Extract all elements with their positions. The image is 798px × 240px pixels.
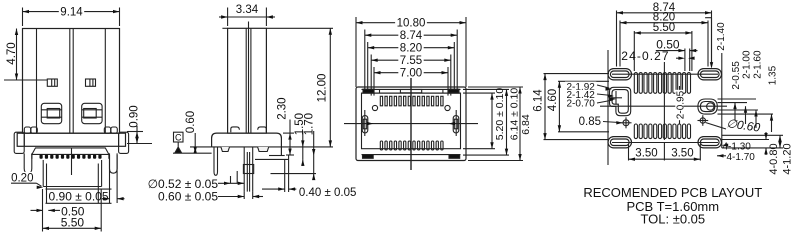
svg-text:7.00: 7.00 bbox=[400, 68, 422, 80]
svg-text:1.35: 1.35 bbox=[768, 65, 779, 85]
svg-text:TOL: ±0.05: TOL: ±0.05 bbox=[640, 212, 705, 227]
right hole marker bbox=[700, 118, 705, 123]
corner ovals bbox=[608, 69, 632, 80]
svg-text:C: C bbox=[175, 132, 182, 142]
label 2-1.00 bbox=[745, 106, 747, 124]
latch springs inside bbox=[231, 127, 240, 132]
center seam left bbox=[69, 29, 71, 134]
column body bbox=[228, 28, 267, 133]
svg-text:3.50: 3.50 bbox=[671, 148, 693, 160]
body outline bbox=[356, 87, 466, 161]
dim 0.90±0.05 bbox=[109, 155, 111, 203]
svg-text:2-0.95: 2-0.95 bbox=[676, 90, 687, 119]
svg-text:0.60 ± 0.05: 0.60 ± 0.05 bbox=[158, 189, 218, 203]
dim 7.00 bbox=[374, 72, 448, 74]
view4 vertical centerline bbox=[663, 62, 665, 140]
svg-text:0.90: 0.90 bbox=[129, 105, 141, 127]
flange tick right bbox=[118, 133, 120, 146]
center seam right bbox=[72, 29, 74, 134]
svg-text:2.30: 2.30 bbox=[277, 97, 289, 119]
inner housing rect bbox=[362, 93, 461, 149]
dims 4-1.30 / 4-1.70 bbox=[721, 144, 723, 146]
side tabs bbox=[24, 127, 30, 133]
pin row 2 bbox=[380, 141, 382, 150]
dim 2.30 bbox=[283, 132, 294, 134]
extension lines bbox=[355, 17, 357, 87]
dim 4.70 bbox=[4, 79, 47, 81]
side latch left bbox=[362, 116, 368, 133]
pin row 1 bbox=[380, 96, 382, 106]
dim 0.50 bbox=[31, 209, 44, 211]
base dome bbox=[212, 133, 282, 155]
top pad row bbox=[634, 73, 637, 94]
flange tick left bbox=[23, 133, 25, 146]
label 2-0.55 bbox=[734, 103, 736, 120]
svg-text:4-1.30: 4-1.30 bbox=[723, 141, 752, 152]
top oval centerline bbox=[612, 73, 718, 75]
strip tick L bbox=[379, 89, 381, 93]
right ear bbox=[119, 132, 129, 153]
dim 0.40±0.05 bbox=[284, 159, 286, 192]
dim 3.50 3.50 bbox=[628, 144, 630, 161]
bottom pad row bbox=[634, 124, 637, 139]
flange band bbox=[17, 133, 125, 146]
bottom oval centerline bbox=[612, 142, 718, 144]
svg-text:8.20: 8.20 bbox=[400, 43, 422, 55]
right SMT foot bbox=[269, 155, 285, 157]
dim 5.50 bbox=[634, 32, 692, 34]
pin collar bbox=[243, 165, 253, 174]
svg-text:3.34: 3.34 bbox=[236, 4, 259, 16]
extension lines top dims bbox=[616, 11, 618, 67]
svg-text:10.80: 10.80 bbox=[397, 18, 426, 30]
dim 8.74 bbox=[365, 34, 457, 36]
dim 1.50 bbox=[302, 131, 304, 159]
tongue inner ext L bbox=[46, 187, 48, 204]
svg-text:4-1.70: 4-1.70 bbox=[727, 152, 756, 163]
right keyhole pad bbox=[698, 99, 717, 114]
strip tick R bbox=[442, 89, 444, 93]
teeth row (filled) bbox=[40, 155, 43, 159]
svg-text:3.50: 3.50 bbox=[635, 148, 657, 160]
svg-text:6.14 ± 0.10: 6.14 ± 0.10 bbox=[509, 88, 521, 141]
bottom strip line bbox=[362, 154, 461, 156]
dim 5.20±0.10 bbox=[463, 92, 495, 94]
hole left bbox=[372, 105, 377, 110]
side latch right bbox=[453, 116, 459, 133]
svg-text:5.50: 5.50 bbox=[61, 215, 85, 229]
view centerline lower bbox=[71, 148, 73, 175]
svg-text:4-1.20: 4-1.20 bbox=[782, 143, 794, 174]
tongue inner ext R bbox=[97, 187, 99, 204]
dim 8.74 bbox=[617, 12, 712, 14]
svg-text:2-1.40: 2-1.40 bbox=[716, 22, 727, 51]
svg-text:6.84: 6.84 bbox=[520, 114, 532, 135]
dim 6.14±0.10 bbox=[463, 88, 509, 90]
label 2-0.95 bbox=[679, 86, 681, 92]
latch window bbox=[47, 79, 57, 86]
svg-text:24-0.27: 24-0.27 bbox=[621, 49, 669, 63]
top strip bbox=[362, 88, 461, 90]
datum C symbol bbox=[174, 132, 184, 142]
cap side L bbox=[31, 154, 33, 158]
dim 0.60 (left of dome) bbox=[194, 133, 196, 153]
left ear bbox=[14, 132, 24, 153]
center tab bbox=[400, 90, 421, 93]
vertical centerline bbox=[410, 78, 412, 170]
shell inner wall right bbox=[104, 29, 106, 134]
peg pin bbox=[214, 147, 218, 175]
seating plane line bbox=[173, 152, 212, 154]
left keyhole pad bbox=[610, 87, 631, 115]
horizontal centerline bbox=[600, 105, 727, 107]
svg-text:4.60: 4.60 bbox=[547, 89, 559, 111]
label 24-0.27 bbox=[676, 57, 682, 59]
svg-text:4-0.80: 4-0.80 bbox=[768, 143, 780, 174]
dim ∅0.52±0.05 bbox=[218, 182, 244, 184]
label 0.85 bbox=[603, 122, 619, 123]
label 2-1.60 bbox=[755, 110, 757, 128]
dim 5.50 bbox=[42, 189, 44, 232]
hole right bbox=[445, 105, 450, 110]
dim 4.60 (view4 left) bbox=[558, 80, 609, 82]
svg-text:2-1.60: 2-1.60 bbox=[752, 50, 763, 79]
svg-text:2-0.70: 2-0.70 bbox=[567, 98, 596, 109]
shield pad BR bbox=[449, 155, 460, 159]
dim 7.55 bbox=[371, 59, 451, 61]
dim 0.90 (right side) bbox=[127, 131, 143, 133]
svg-text:4.70: 4.70 bbox=[6, 42, 18, 64]
dim 3.34 bbox=[227, 8, 229, 27]
dim 0.20 bbox=[11, 182, 37, 184]
dim 9.14 bbox=[22, 8, 24, 27]
frame verticals bbox=[607, 50, 609, 165]
dims 4-0.80 / 4-1.20 bbox=[722, 134, 783, 136]
svg-text:2-0.55: 2-0.55 bbox=[731, 61, 742, 90]
cap over tongue (trapezoid) bbox=[32, 148, 109, 155]
svg-text:5.50: 5.50 bbox=[653, 22, 675, 34]
svg-text:0.20: 0.20 bbox=[11, 172, 33, 184]
svg-text:5.20 ± 0.10: 5.20 ± 0.10 bbox=[494, 88, 506, 141]
right side extension lines bbox=[718, 98, 757, 100]
dim 8.20 bbox=[368, 47, 455, 49]
label ∅0.60 bbox=[706, 123, 727, 130]
label 2-1.40 bbox=[705, 17, 711, 19]
shell body bbox=[23, 29, 120, 134]
svg-text:0.90 ± 0.05: 0.90 ± 0.05 bbox=[49, 190, 109, 204]
left hole marker bbox=[623, 120, 629, 126]
svg-text:6.14: 6.14 bbox=[533, 89, 545, 112]
shield pad TR bbox=[448, 89, 459, 93]
contact foot bbox=[41, 103, 61, 123]
shield pad TL bbox=[363, 89, 374, 93]
svg-text:8.74: 8.74 bbox=[400, 30, 423, 42]
top edge overhang bbox=[222, 27, 227, 29]
dim 12.00 bbox=[266, 27, 333, 29]
dim 8.20 bbox=[620, 22, 708, 24]
contact foot bbox=[82, 103, 102, 123]
shell inner wall left bbox=[36, 29, 38, 134]
left leg bbox=[24, 153, 32, 173]
dim 1.70 bbox=[271, 173, 317, 175]
dim 10.80 bbox=[356, 22, 466, 24]
dome feet bbox=[221, 147, 230, 152]
labels 2-1.92 / 2-1.42 / 2-0.70 bbox=[597, 85, 609, 88]
tongue bbox=[42, 160, 44, 187]
dim 0.50 bbox=[656, 50, 685, 52]
right leg bbox=[110, 153, 118, 173]
svg-text:7.55: 7.55 bbox=[400, 55, 422, 67]
svg-text:2-1.00: 2-1.00 bbox=[742, 50, 753, 79]
label 1.35 bbox=[771, 114, 773, 132]
horizontal centerline bbox=[344, 123, 478, 125]
shield pad BL bbox=[363, 155, 374, 159]
center pins bbox=[243, 147, 245, 192]
dim 0.60±0.05 bbox=[218, 196, 244, 198]
svg-text:9.14: 9.14 bbox=[60, 6, 83, 18]
column centerline bbox=[248, 22, 250, 134]
svg-text:12.00: 12.00 bbox=[317, 74, 329, 103]
svg-text:0.40 ± 0.05: 0.40 ± 0.05 bbox=[299, 187, 356, 199]
svg-text:1.70: 1.70 bbox=[304, 113, 316, 135]
dim 6.14 (view4 left) bbox=[544, 73, 610, 75]
latch window bbox=[86, 79, 96, 86]
cap side R bbox=[108, 154, 110, 158]
dim 6.84 bbox=[468, 86, 523, 88]
svg-text:0.85: 0.85 bbox=[579, 116, 601, 128]
svg-text:0.60: 0.60 bbox=[185, 111, 197, 133]
svg-text:RECOMENDED PCB LAYOUT: RECOMENDED PCB LAYOUT bbox=[583, 185, 762, 200]
